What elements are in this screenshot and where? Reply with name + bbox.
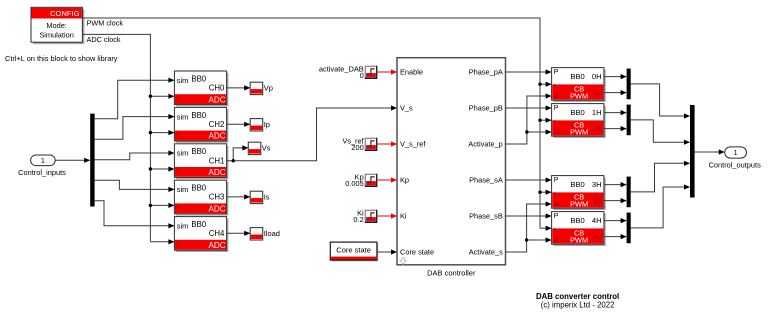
wire mux 3 to output mux — [631, 161, 690, 192]
svg-text:Vp: Vp — [264, 83, 273, 92]
svg-text:PWM clock: PWM clock — [87, 19, 124, 28]
svg-text:Is: Is — [264, 192, 270, 201]
constant Kp = 0.005 — [345, 172, 377, 188]
svg-text:ADC: ADC — [209, 168, 226, 177]
wire Core state to controller — [377, 249, 397, 254]
svg-text:1: 1 — [41, 156, 45, 165]
svg-text:sim: sim — [177, 149, 189, 158]
svg-text:PWM: PWM — [570, 128, 588, 137]
svg-text:>: > — [553, 83, 556, 89]
wire Phase_pA to PWM block P input — [506, 69, 552, 74]
PWM block CB PWM 1H/1L (BB0) — [552, 104, 606, 138]
wire PWM 3 output to mux — [604, 182, 627, 187]
svg-text:0H: 0H — [592, 72, 602, 81]
svg-text:Ki: Ki — [400, 212, 407, 221]
svg-text:A: A — [554, 236, 559, 245]
svg-text:ADC: ADC — [209, 132, 226, 141]
svg-text:P: P — [554, 213, 559, 220]
svg-text:Core state: Core state — [400, 248, 434, 257]
svg-text:0L: 0L — [593, 88, 601, 97]
svg-text:sim: sim — [177, 76, 189, 85]
core state load icon (gray down arrow) — [400, 258, 406, 265]
scope Vp — [250, 82, 263, 94]
wire mux 4 to output mux — [631, 184, 690, 228]
wire PWM 1 output to mux — [604, 110, 627, 115]
PWM block CB PWM 0H/0L (BB0) — [552, 68, 606, 102]
wire output mux to Control_outputs — [695, 149, 725, 154]
svg-text:BB0: BB0 — [191, 111, 206, 120]
wire Phase_sB to PWM block P input — [506, 213, 552, 218]
svg-text:CONFIG: CONFIG — [50, 9, 80, 18]
svg-text:P: P — [554, 177, 559, 184]
svg-text:1L: 1L — [593, 124, 601, 133]
svg-text:>: > — [553, 191, 556, 197]
wire activate_DAB to controller (tunable, red) — [377, 69, 397, 74]
svg-text:3H: 3H — [592, 180, 602, 189]
svg-text:DAB controller: DAB controller — [427, 269, 476, 278]
svg-text:P: P — [554, 105, 559, 112]
svg-text:BB0: BB0 — [191, 184, 206, 193]
ADC block CH4 (BB0) — [174, 217, 228, 252]
svg-text:A: A — [554, 200, 559, 209]
outport 1 Control_outputs — [725, 147, 747, 158]
svg-text:activate_DAB: activate_DAB — [319, 64, 364, 73]
wire demux output 4 to ADC CH3 sim input — [95, 180, 175, 192]
svg-text:4L: 4L — [593, 232, 601, 241]
wire Activate_s to PWM blocks 3/4 A inputs — [506, 201, 552, 252]
wire Kp to controller (tunable, red) — [377, 177, 397, 182]
wire PWM 4 output to mux — [604, 218, 627, 223]
svg-text:sim: sim — [177, 112, 189, 121]
wire Ki to controller (tunable, red) — [377, 213, 397, 218]
wire PWM 4 output to mux — [604, 234, 627, 239]
svg-text:P: P — [554, 69, 559, 76]
scope Is — [250, 191, 263, 203]
wire Activate_p to PWM blocks 0/1 A inputs — [506, 93, 552, 144]
svg-text:4H: 4H — [592, 216, 602, 225]
svg-text:Mode:: Mode: — [46, 21, 67, 30]
svg-text:Phase_pA: Phase_pA — [469, 68, 503, 77]
svg-text:CH1: CH1 — [209, 156, 225, 165]
wire PWM 0 output to mux — [604, 90, 627, 95]
ADC block CH0 (BB0) — [174, 71, 228, 106]
wire Phase_pB to PWM block P input — [506, 105, 552, 110]
svg-text:Kp: Kp — [400, 176, 409, 185]
svg-text:Activate_p: Activate_p — [468, 140, 503, 149]
svg-text:200: 200 — [351, 143, 363, 152]
svg-text:Activate_s: Activate_s — [469, 248, 503, 257]
svg-text:DAB converter control: DAB converter control — [536, 292, 619, 301]
wire mux 1 to output mux — [631, 120, 690, 145]
wire Vs_ref to controller (tunable, red) — [377, 141, 397, 146]
svg-text:CH2: CH2 — [209, 120, 225, 129]
svg-text:BB0: BB0 — [570, 108, 584, 117]
svg-text:>: > — [553, 227, 556, 233]
svg-text:1H: 1H — [592, 108, 602, 117]
mux 4H/4L — [627, 213, 631, 244]
svg-text:CH3: CH3 — [209, 193, 225, 202]
wire demux output 3 to ADC CH1 sim input — [95, 150, 175, 159]
scope Ip — [250, 119, 263, 131]
PWM block CB PWM 4H/4L (BB0) — [552, 212, 606, 246]
demux (input signal splitter) — [90, 114, 94, 207]
svg-text:Phase_sB: Phase_sB — [469, 212, 503, 221]
junction node at CH1 output — [232, 159, 235, 162]
svg-text:V_s: V_s — [400, 104, 413, 113]
wire PWM 1 output to mux — [604, 126, 627, 131]
Core state source block — [330, 242, 378, 261]
svg-text:PWM: PWM — [570, 200, 588, 209]
CONFIG block — [31, 7, 84, 44]
svg-text:CH0: CH0 — [209, 84, 225, 93]
svg-text:Core state: Core state — [336, 245, 371, 254]
PWM block CB PWM 3H/3L (BB0) — [552, 176, 606, 210]
svg-text:BB0: BB0 — [570, 180, 584, 189]
svg-text:ADC: ADC — [209, 241, 226, 250]
svg-text:(c) imperix Ltd - 2022: (c) imperix Ltd - 2022 — [541, 301, 615, 310]
svg-text:BB0: BB0 — [191, 220, 206, 229]
DAB controller subsystem block — [397, 58, 506, 265]
wire Phase_sA to PWM block P input — [506, 177, 552, 182]
wire PWM 3 output to mux — [604, 198, 627, 203]
svg-text:>: > — [176, 168, 180, 174]
svg-text:Phase_pB: Phase_pB — [469, 104, 503, 113]
wire demux output 5 to ADC CH4 sim input — [95, 201, 175, 229]
svg-text:A: A — [554, 92, 559, 101]
svg-text:BB0: BB0 — [191, 147, 206, 156]
svg-text:>: > — [553, 119, 556, 125]
ADC block CH3 (BB0) — [174, 180, 228, 215]
constant activate_DAB = 0 — [319, 64, 377, 80]
svg-text:>: > — [176, 132, 180, 138]
svg-text:>: > — [176, 241, 180, 247]
svg-text:CH4: CH4 — [209, 229, 225, 238]
svg-text:ADC: ADC — [209, 205, 226, 214]
svg-text:ADC: ADC — [209, 95, 226, 104]
svg-text:sim: sim — [177, 222, 189, 231]
svg-text:BB0: BB0 — [570, 216, 584, 225]
scope Iload — [250, 228, 263, 240]
junction dots on PWM clock line — [538, 83, 541, 194]
svg-text:Ip: Ip — [264, 120, 270, 129]
svg-text:Enable: Enable — [400, 68, 423, 77]
wire demux output 1 to ADC CH0 sim input — [95, 78, 175, 119]
wire PWM clock (CONFIG to PWM blocks clock inputs) — [82, 18, 551, 231]
ADC block CH1 (BB0) — [174, 144, 228, 179]
svg-text:3L: 3L — [593, 196, 601, 205]
junction node on Activate_p — [525, 130, 528, 133]
output mux (combines 4 PWM pairs) — [690, 105, 695, 198]
svg-text:Control_outputs: Control_outputs — [709, 161, 761, 170]
constant Ki = 0.2 — [353, 208, 376, 224]
wire ADC CH3 output to scope Is — [227, 194, 251, 199]
wire mux 0 to output mux — [631, 84, 690, 119]
svg-text:Ctrl+L on this block to show l: Ctrl+L on this block to show library — [5, 54, 118, 63]
svg-text:V_s_ref: V_s_ref — [400, 140, 426, 149]
ADC block CH2 (BB0) — [174, 107, 228, 142]
mux 1H/1L — [627, 105, 631, 136]
svg-text:Iload: Iload — [264, 229, 280, 238]
svg-text:Simulation: Simulation — [39, 31, 74, 40]
svg-text:>: > — [176, 96, 180, 102]
wire ADC CH2 output to scope Ip — [227, 122, 251, 127]
mux 0H/0L — [627, 69, 631, 100]
svg-text:0: 0 — [360, 71, 364, 80]
wire ADC clock (CONFIG to ADC blocks clock inputs) — [82, 34, 174, 244]
wire ADC CH1 output to Vs scope and V_s input of controller — [227, 105, 397, 160]
wire Control_inputs to demux — [55, 158, 90, 163]
svg-text:BB0: BB0 — [570, 72, 584, 81]
inport 1 Control_inputs — [31, 155, 56, 166]
wire ADC CH0 output to scope Vp — [227, 85, 251, 90]
svg-text:BB0: BB0 — [191, 74, 206, 83]
junction dots on ADC clock line — [149, 95, 152, 208]
svg-text:A: A — [554, 128, 559, 137]
wire PWM 0 output to mux — [604, 74, 627, 79]
scope Vs — [248, 142, 260, 154]
junction node on Activate_s — [525, 238, 528, 241]
mux 3H/3L — [627, 177, 631, 208]
svg-text:0.005: 0.005 — [345, 179, 364, 188]
wire demux output 2 to ADC CH2 sim input — [95, 114, 175, 139]
svg-text:0.2: 0.2 — [353, 215, 363, 224]
svg-text:ADC clock: ADC clock — [87, 35, 121, 44]
svg-text:PWM: PWM — [570, 236, 588, 245]
svg-text:sim: sim — [177, 185, 189, 194]
svg-text:>: > — [176, 205, 180, 211]
constant Vs_ref = 200 — [342, 136, 376, 152]
svg-text:PWM: PWM — [570, 92, 588, 101]
wire ADC CH4 output to scope Iload — [227, 231, 251, 236]
svg-text:Control_inputs: Control_inputs — [18, 168, 66, 177]
svg-text:Phase_sA: Phase_sA — [469, 176, 503, 185]
svg-text:Vs: Vs — [262, 143, 271, 152]
svg-text:1: 1 — [734, 148, 738, 157]
